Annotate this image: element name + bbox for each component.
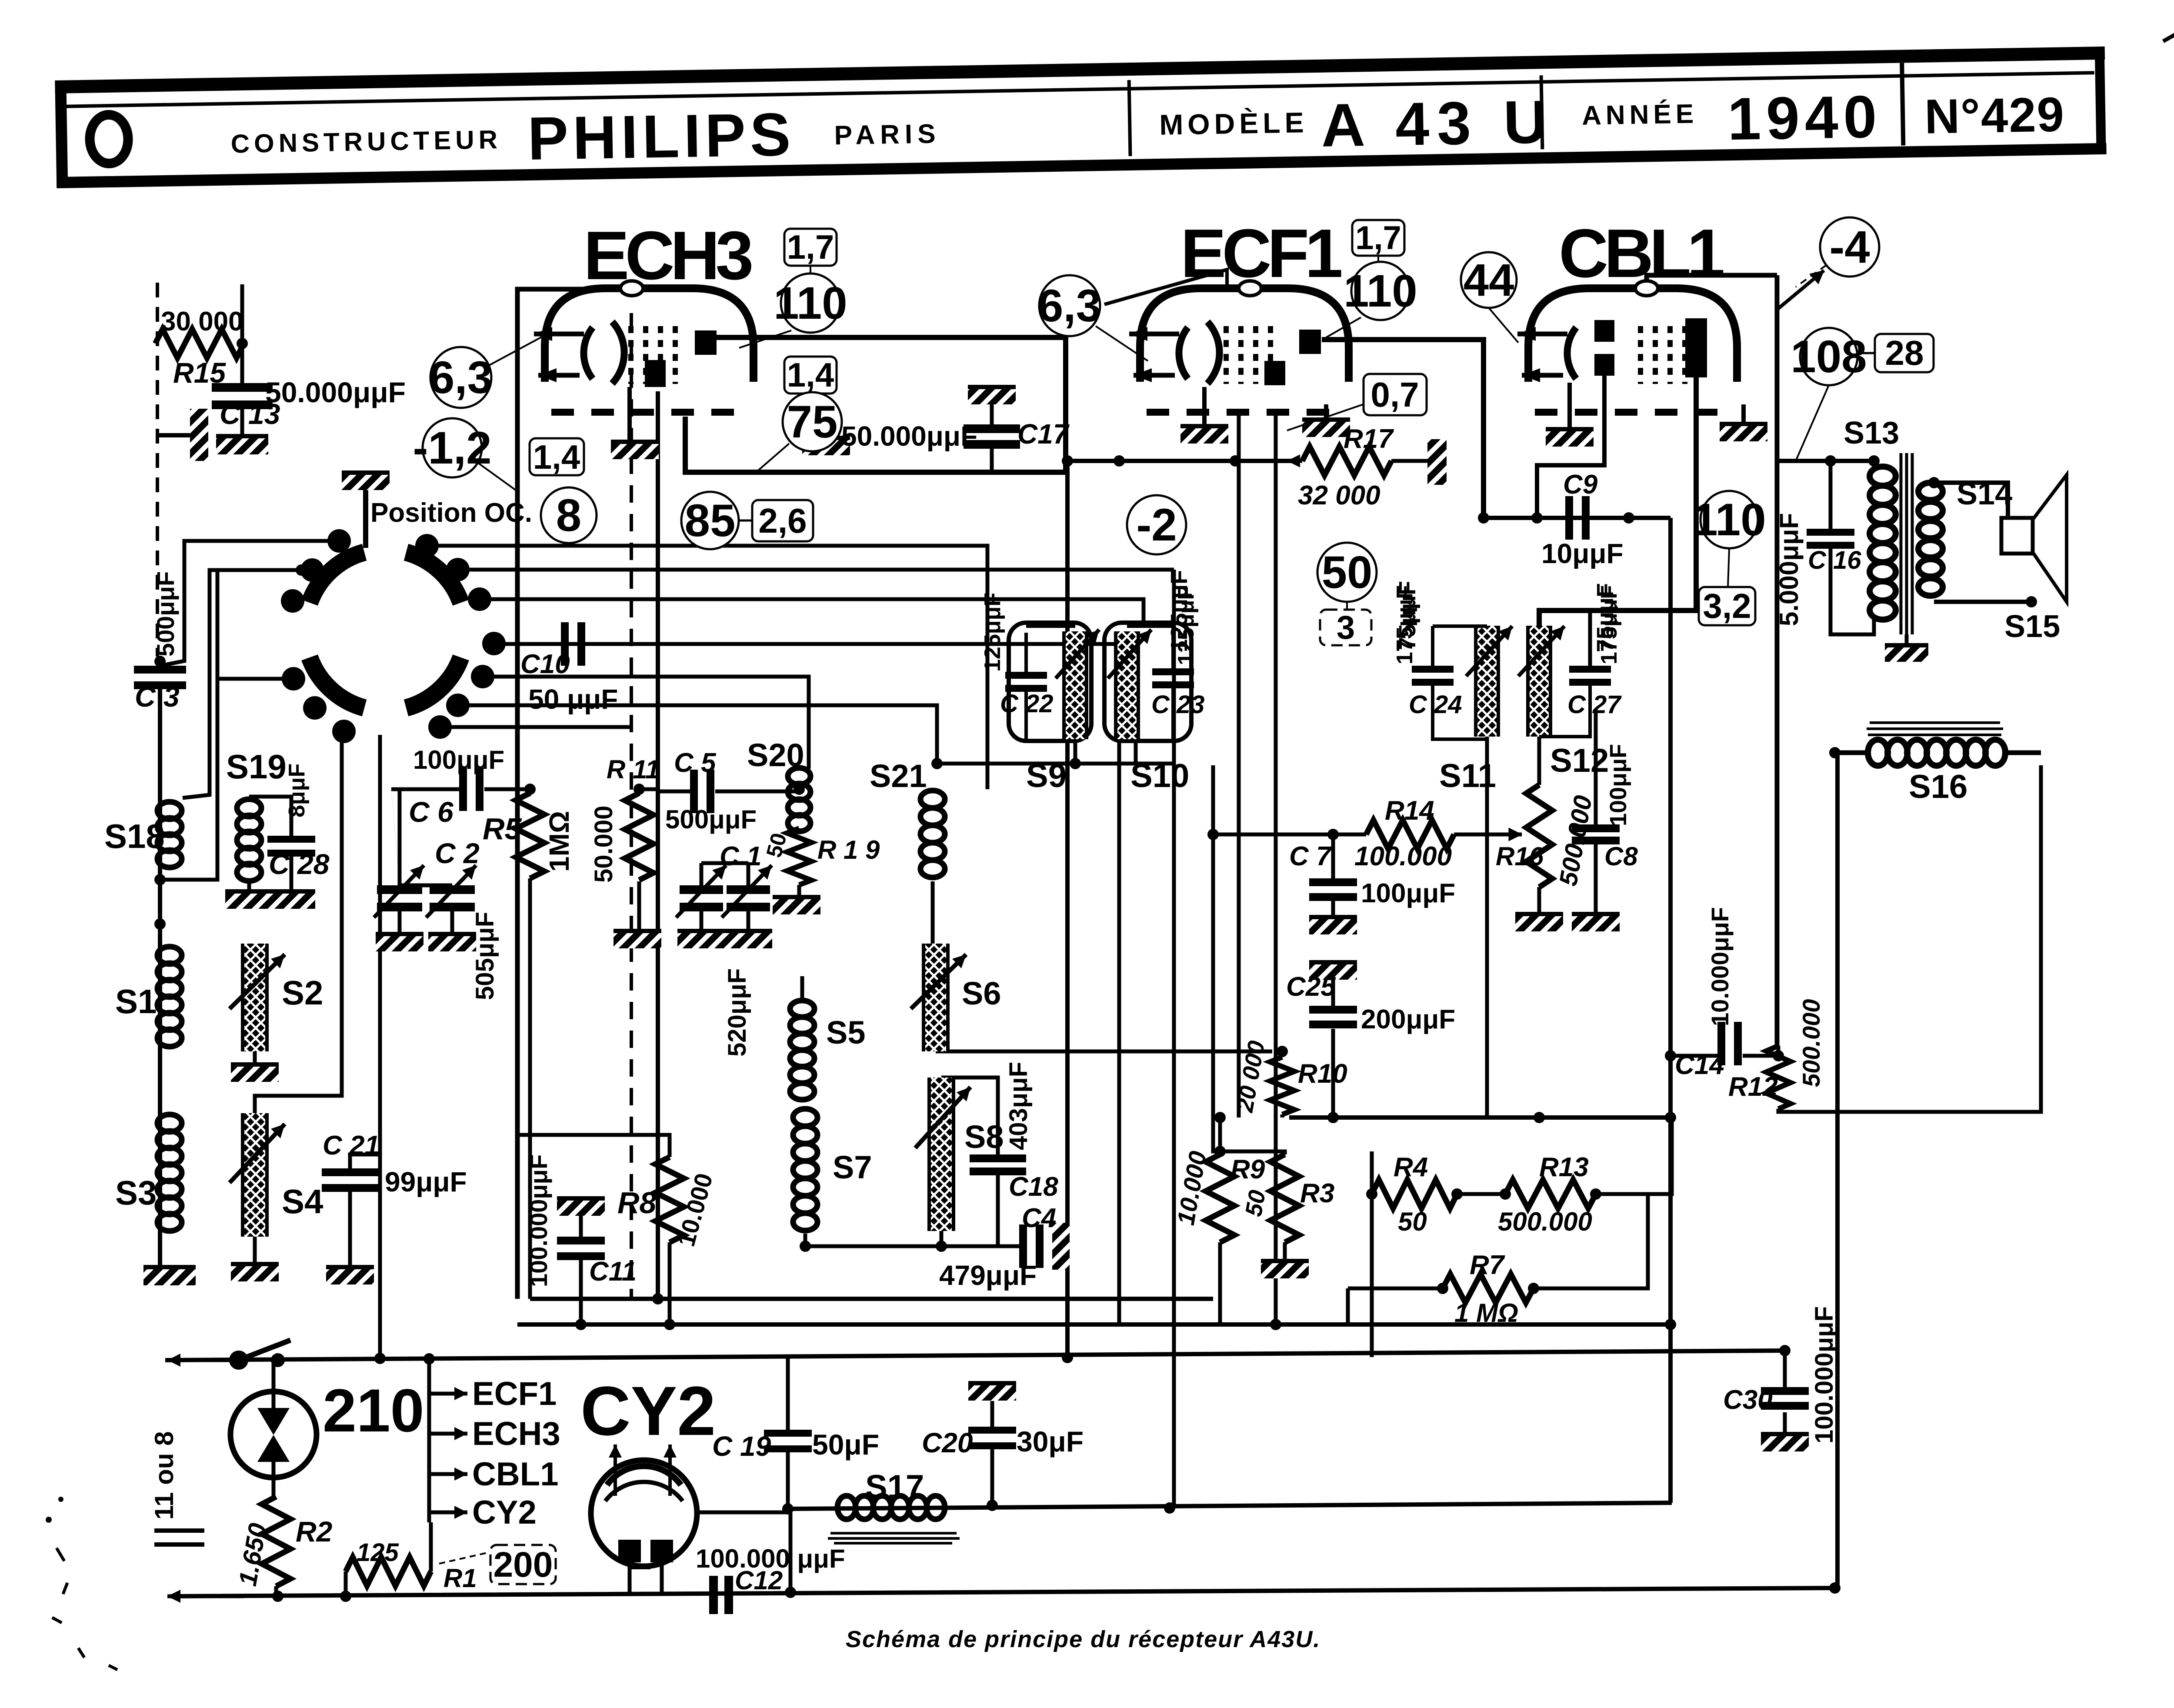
ECF1 mid ground (1324, 404, 1328, 418)
wire HT rail mid (530, 1297, 1213, 1301)
speaker S15 (2001, 518, 2033, 554)
svg-text:C17: C17 (1017, 418, 1070, 450)
variable capacitor C2a (377, 885, 422, 911)
wire S8 top to C18 (941, 1078, 998, 1154)
wire switch fan 1 (427, 546, 987, 789)
svg-text:S2: S2 (282, 974, 323, 1012)
arrow to ECH3 (429, 1427, 467, 1440)
capacitor C18 (970, 1154, 1026, 1175)
wire S7 bottom run to C4 (805, 1234, 1019, 1246)
resistor R8 (655, 1157, 684, 1242)
rectifier tube CY2 (591, 1460, 697, 1566)
svg-text:S9: S9 (1026, 757, 1067, 794)
wire ECH3 cathode lead down (656, 391, 660, 1299)
svg-text:C11: C11 (589, 1257, 637, 1287)
capacitor C9 (1565, 496, 1590, 540)
wire switch down to power rail (378, 735, 382, 1358)
arrow to CY2 (429, 1506, 467, 1519)
svg-text:ECF1: ECF1 (1180, 215, 1341, 292)
svg-text:75μμF: 75μμF (1592, 583, 1618, 652)
node 6,3 ECF1 (1038, 275, 1101, 336)
IF1 box left (1009, 623, 1091, 741)
resistor R2 (262, 1497, 290, 1586)
svg-text:200μμF: 200μμF (1361, 1004, 1455, 1034)
capacitor C8 (1572, 824, 1620, 844)
svg-text:505μμF: 505μμF (471, 912, 499, 1000)
coil S1 (157, 947, 182, 1047)
wire S5-S7 column top hook (800, 976, 804, 1001)
capacitor C14 (1717, 1022, 1742, 1065)
wire S21 to S6 (931, 881, 935, 944)
svg-text:C 24: C 24 (1409, 691, 1462, 719)
svg-text:ECH3: ECH3 (472, 1415, 560, 1452)
ground under C2 (428, 932, 476, 951)
svg-text:50.000μμF: 50.000μμF (841, 420, 977, 452)
node 108 circle (1791, 328, 1867, 385)
wire heater power rail (165, 1351, 1785, 1360)
capacitor C19 (764, 1430, 812, 1452)
svg-text:C 16: C 16 (1808, 546, 1861, 574)
svg-text:S13: S13 (1844, 416, 1899, 450)
svg-text:500.000: 500.000 (1498, 1207, 1592, 1236)
capacitor C16 (1807, 529, 1854, 549)
wire HT vertical right of ECH3 (1065, 461, 1070, 1358)
svg-text:CBL1: CBL1 (1559, 215, 1724, 292)
svg-text:100μμF: 100μμF (1605, 744, 1631, 826)
wire R4 left leg (1370, 1151, 1374, 1194)
svg-text:S16: S16 (1909, 768, 1967, 805)
wire C25 column (1331, 977, 1335, 1006)
coil S4 iron core (243, 1113, 267, 1237)
svg-text:S11: S11 (1439, 757, 1496, 794)
svg-text:1,7: 1,7 (1355, 220, 1401, 257)
wire R15 right riser (240, 284, 244, 344)
title block (55, 49, 2106, 188)
coil S7 (793, 1109, 817, 1231)
coil S8 iron core (929, 1078, 954, 1231)
node 50 circle (1317, 543, 1377, 602)
svg-text:N°429: N°429 (1924, 87, 2065, 143)
svg-text:100.000μμF: 100.000μμF (525, 1154, 552, 1287)
svg-text:6,3: 6,3 (1038, 280, 1101, 331)
wire lamp column (272, 1360, 276, 1409)
wire switch fan 4 (483, 677, 809, 769)
resistor R3 (1270, 1154, 1299, 1242)
capacitor C7 (1309, 878, 1357, 901)
heater chain arrows (427, 1359, 431, 1522)
svg-text:403μμF: 403μμF (1004, 1062, 1033, 1150)
svg-text:S17: S17 (865, 1468, 924, 1505)
wire C12 link rails (789, 1509, 793, 1592)
svg-text:CY2: CY2 (580, 1372, 716, 1450)
svg-text:1 MΩ: 1 MΩ (1454, 1298, 1518, 1328)
capacitor C23 (1152, 668, 1194, 688)
svg-text:1,4: 1,4 (533, 438, 580, 476)
wall ground R17 (1427, 439, 1447, 485)
resistor R11 (625, 793, 654, 880)
resistor R7 (1443, 1274, 1534, 1303)
resistor R5 (516, 793, 544, 878)
svg-text:Position OC.: Position OC. (370, 498, 532, 528)
capacitor C10 (561, 622, 585, 666)
wire ECF1 plate to right (1322, 340, 1484, 518)
node 1,4 left box (530, 438, 584, 476)
svg-text:C8: C8 (1604, 842, 1638, 871)
svg-text:125μμF: 125μμF (1166, 570, 1192, 652)
svg-text:1,4: 1,4 (787, 356, 834, 394)
tube ECH3 (534, 281, 754, 412)
svg-text:125: 125 (357, 1538, 399, 1567)
svg-text:1MΩ: 1MΩ (543, 811, 575, 872)
svg-text:2,6: 2,6 (758, 501, 807, 540)
CBL1 cathode lead + ground (1567, 383, 1572, 427)
wire C8 column (1594, 709, 1598, 824)
wire R7 run (1348, 1287, 1443, 1291)
svg-text:10μμF: 10μμF (1541, 538, 1624, 569)
svg-text:30μF: 30μF (1017, 1425, 1084, 1458)
node 0,7 box (1364, 374, 1427, 415)
filter choke S17 (837, 1496, 945, 1519)
ground under C2a (376, 932, 423, 951)
node 1,4 box ECH3 (784, 356, 837, 394)
svg-text:C4: C4 (1022, 1203, 1056, 1233)
wire C27 top stub (1588, 610, 1592, 666)
svg-text:R 11: R 11 (607, 755, 660, 784)
svg-text:R10: R10 (1298, 1059, 1347, 1089)
wire C2 grounds stems (398, 911, 402, 932)
tube ECF1 (1129, 281, 1349, 412)
capacitor C21 (322, 1168, 378, 1192)
capacitor C25 with top ground (1309, 961, 1357, 980)
wire bottom mains rail (171, 753, 1837, 1596)
capacitor C3 (134, 666, 186, 689)
variable capacitor C1a (680, 885, 723, 911)
svg-text:3: 3 (1337, 609, 1355, 646)
node 1,7 box ECH3 (784, 228, 837, 266)
node 1,7 box ECF1 (1352, 220, 1404, 257)
svg-text:C10: C10 (520, 649, 570, 679)
svg-text:C 21: C 21 (323, 1131, 380, 1161)
wire switch left 2 (183, 570, 301, 798)
svg-text:R4: R4 (1394, 1152, 1428, 1182)
variable capacitor C2 (430, 885, 475, 911)
svg-text:75: 75 (787, 397, 838, 447)
svg-text:R8: R8 (617, 1186, 657, 1220)
capacitor C20 with ground (968, 1381, 1016, 1401)
svg-text:R13: R13 (1539, 1152, 1589, 1182)
svg-text:500μμF: 500μμF (152, 571, 179, 657)
svg-text:500.000: 500.000 (1797, 999, 1825, 1087)
svg-text:C 27: C 27 (1567, 691, 1622, 719)
wire R12 bottom to S16 right (1778, 765, 2041, 1112)
wire R1 legs (344, 1571, 348, 1596)
node 110 circle CBL1 (1692, 491, 1766, 548)
svg-text:50μF: 50μF (812, 1428, 879, 1461)
svg-text:50.000μμF: 50.000μμF (265, 376, 406, 408)
wire ECF1 cathode lead (1237, 411, 1241, 1118)
svg-text:30 000: 30 000 (161, 307, 243, 337)
variable capacitor C1 (727, 885, 770, 911)
wire C9 run (1484, 516, 1671, 520)
svg-text:75μμF: 75μμF (1394, 581, 1420, 650)
node -2 circle (1127, 495, 1186, 554)
wire switch left 3 (217, 677, 293, 681)
wire AVC vertical (1213, 765, 1220, 1151)
ECF1 lower plate square (1264, 361, 1285, 385)
wire S16 ends (1835, 751, 1868, 755)
wire switch fan 5 (458, 705, 937, 765)
node 28 box (1875, 334, 1934, 372)
svg-text:R16: R16 (1496, 842, 1544, 871)
wire S13 top feed (1777, 461, 1874, 467)
svg-text:R5: R5 (483, 812, 522, 846)
ground under S3 (143, 1265, 196, 1285)
svg-text:R14: R14 (1385, 796, 1434, 826)
capacitor C11 (557, 1237, 605, 1260)
svg-text:50: 50 (1322, 547, 1373, 598)
ECF1 grid cap lead (1104, 270, 1227, 304)
coil S2 iron core (243, 944, 267, 1051)
wire switch fan 6 (440, 725, 631, 729)
svg-text:50: 50 (1398, 1207, 1427, 1236)
capacitor C4 (1019, 1224, 1044, 1268)
header divider 2 (1902, 63, 1903, 146)
svg-text:C25: C25 (1286, 972, 1336, 1002)
svg-text:10.000μμF: 10.000μμF (1706, 907, 1734, 1026)
svg-text:C 7: C 7 (1289, 841, 1332, 871)
wire S8 bottom stub (940, 1231, 944, 1246)
svg-text:125μμF: 125μμF (980, 593, 1005, 672)
wire R9 R3 top link (1220, 1151, 1285, 1154)
svg-text:C 23: C 23 (1151, 691, 1205, 719)
svg-text:520μμF: 520μμF (723, 968, 751, 1057)
ECH3 right lead + ground (824, 407, 828, 436)
svg-text:C30: C30 (1723, 1385, 1773, 1415)
svg-text:-4: -4 (1829, 222, 1870, 273)
svg-text:C 5: C 5 (674, 748, 717, 778)
svg-text:S8: S8 (964, 1119, 1004, 1155)
wire switch fan 2 (458, 568, 1174, 572)
wire ECH3 box bottom (685, 417, 1066, 472)
svg-text:50.000: 50.000 (590, 806, 618, 883)
wire R4 R13 run (1457, 1192, 1505, 1196)
svg-text:C9: C9 (1563, 470, 1598, 500)
node 110 circle ECH3 (774, 274, 847, 333)
corner X mark (2163, 11, 2174, 48)
wire R9 column (1218, 1118, 1222, 1154)
node 2,6 box (752, 500, 813, 541)
wire C6 run (391, 787, 459, 791)
wire right HT vertical (1668, 518, 1673, 1503)
svg-text:-2: -2 (1136, 500, 1177, 550)
ground under R16 (1515, 912, 1563, 931)
scan specks (52, 1548, 117, 1670)
svg-text:R 1 9: R 1 9 (817, 835, 880, 864)
capacitor C5 (690, 770, 714, 813)
wire S4 bottom (253, 1237, 257, 1262)
svg-text:11 ou 8: 11 ou 8 (150, 1431, 179, 1520)
svg-text:1940: 1940 (1727, 83, 1883, 153)
node 8 circle (541, 487, 597, 543)
wire screen rail 2570 (1289, 1115, 1671, 1120)
svg-text:200: 200 (493, 1545, 553, 1585)
resistor R9 (1206, 1154, 1234, 1242)
transformer core (1900, 453, 1903, 634)
ground under S4 (231, 1262, 279, 1281)
wire CBL1 screen lead (1537, 376, 1604, 518)
svg-text:C12: C12 (735, 1566, 783, 1595)
coil S9 iron (1064, 631, 1087, 739)
ground under C30 (1761, 1432, 1809, 1451)
svg-text:Schéma de principe du réce: Schéma de principe du récepteur A43U. (846, 1626, 1320, 1652)
wire switch left 1 (160, 541, 339, 666)
svg-text:100μμF: 100μμF (413, 745, 504, 774)
svg-text:S1: S1 (115, 982, 157, 1021)
svg-text:C 28: C 28 (269, 848, 330, 880)
ground under S2 (231, 1063, 279, 1082)
svg-text:R1: R1 (443, 1564, 477, 1593)
svg-text:S19: S19 (226, 747, 287, 786)
box 200 dashed (490, 1545, 556, 1585)
CBL1 screen squares (1594, 320, 1614, 342)
svg-text:32 000: 32 000 (1298, 480, 1380, 510)
svg-text:PARIS: PARIS (834, 119, 941, 150)
wire C13 column (240, 344, 244, 383)
svg-text:5.000μμF: 5.000μμF (1774, 513, 1804, 626)
wire CY2 plate legs (628, 1563, 632, 1594)
ECH3 plate cap square (695, 330, 717, 355)
svg-text:110: 110 (1692, 494, 1766, 545)
svg-text:S15: S15 (2004, 609, 2060, 644)
node 85 circle (681, 492, 739, 549)
svg-text:S20: S20 (747, 737, 804, 773)
wire C2 tops (400, 789, 452, 885)
svg-text:85: 85 (685, 495, 736, 546)
ballast lamp 210 (230, 1391, 317, 1478)
svg-text:C18: C18 (1009, 1172, 1058, 1202)
wall ground left (190, 409, 208, 461)
wire antenna dashed (156, 283, 159, 657)
ground under R11 (614, 929, 661, 948)
svg-text:S14: S14 (1957, 477, 2012, 511)
coil S12 iron (1528, 626, 1550, 737)
ground under C21 (326, 1265, 374, 1284)
coil S10 iron (1116, 631, 1138, 739)
resistor R14 (1366, 820, 1454, 849)
svg-text:S5: S5 (826, 1014, 866, 1051)
arrow to ECF1 (429, 1387, 467, 1400)
resistor R16 potentiometer (1526, 785, 1552, 887)
wire R11 column (637, 789, 641, 793)
coil S21 (920, 791, 945, 877)
wire R8 legs (517, 1135, 670, 1157)
wire C1 tops (701, 861, 748, 865)
node 3 box (1320, 609, 1371, 646)
wire CY2 heater to C19 (696, 1511, 788, 1515)
ground under C1a (677, 929, 725, 948)
tube CBL1 (1517, 281, 1737, 412)
coil S3 (157, 1114, 182, 1231)
svg-text:S3: S3 (115, 1174, 157, 1212)
capacitor C12 inline (709, 1576, 718, 1614)
svg-text:C 19: C 19 (712, 1431, 771, 1462)
resistor R15 (155, 329, 244, 358)
wire ECF1 grid lead (1274, 411, 1278, 1324)
svg-text:CONSTRUCTEUR: CONSTRUCTEUR (230, 125, 502, 158)
capacitor C30 (1761, 1387, 1809, 1410)
svg-text:ECH3: ECH3 (584, 217, 752, 294)
svg-text:PHILIPS: PHILIPS (527, 100, 795, 173)
wire C21 column (350, 1154, 380, 1168)
svg-text:110: 110 (774, 278, 847, 329)
svg-text:3,2: 3,2 (1703, 587, 1751, 625)
svg-text:108: 108 (1791, 331, 1867, 382)
resistor R4 (1372, 1180, 1457, 1208)
node 44 circle (1461, 252, 1517, 308)
resistor R10 (1270, 1057, 1294, 1114)
coil S5 (790, 1001, 814, 1100)
svg-text:ANNÉE: ANNÉE (1582, 99, 1698, 130)
svg-text:A 43 U: A 43 U (1320, 87, 1556, 160)
svg-text:R17: R17 (1344, 424, 1394, 454)
wire R7 left leg (1346, 1288, 1350, 1324)
ground under C8 (1572, 912, 1620, 931)
wire CBL1 plate to S12 (1539, 377, 1696, 626)
svg-text:MODÈLE: MODÈLE (1159, 106, 1309, 141)
wire S6 bottom to R10 (936, 1050, 1272, 1054)
svg-text:CBL1: CBL1 (472, 1456, 558, 1493)
resistor R12 (1766, 1046, 1791, 1109)
IF2 capacitor C24 (1412, 666, 1454, 686)
wire S19 S2 S4 column (255, 725, 342, 1113)
arrow to CBL1 (429, 1468, 467, 1481)
ECH3 cathode lead + ground (627, 387, 632, 440)
coil S18 (157, 802, 182, 867)
svg-text:110: 110 (1344, 266, 1417, 317)
svg-text:0,7: 0,7 (1370, 375, 1419, 414)
hole punch mark (90, 114, 129, 163)
svg-text:50 μμF: 50 μμF (528, 684, 618, 715)
wire R5 bottom (528, 878, 532, 1299)
wire switch fan 3 C10 (494, 642, 1119, 646)
svg-text:C14: C14 (1675, 1050, 1724, 1080)
wire screen rail with R17 (1067, 459, 1294, 463)
svg-text:100.000: 100.000 (1354, 841, 1452, 871)
IF1 box right (1104, 623, 1191, 741)
svg-text:C 3: C 3 (135, 681, 180, 713)
coil S14 secondary (1918, 483, 1943, 596)
wire C18 bottom stem (996, 1174, 1000, 1246)
ground under C7 (1309, 915, 1357, 934)
svg-text:44: 44 (1464, 255, 1514, 306)
wire IF1 bottom stubs (1075, 739, 1136, 764)
coil S6 iron core (924, 944, 948, 1051)
svg-text:S10: S10 (1130, 757, 1189, 794)
ground under S19 (225, 890, 273, 909)
capacitor C6 (459, 767, 483, 811)
filter choke S16 (1868, 740, 2005, 766)
wire OC dashed vertical (630, 313, 633, 1298)
svg-text:8: 8 (556, 490, 581, 541)
svg-text:CY2: CY2 (472, 1494, 537, 1531)
svg-text:S21: S21 (870, 758, 927, 794)
CBL1 right ground (1741, 404, 1746, 422)
coil S20 (788, 768, 810, 831)
svg-text:S6: S6 (962, 975, 1001, 1011)
svg-text:1,7: 1,7 (787, 228, 834, 266)
node 6,3 left (429, 347, 493, 408)
wire S19 C28 stubs (249, 797, 291, 836)
